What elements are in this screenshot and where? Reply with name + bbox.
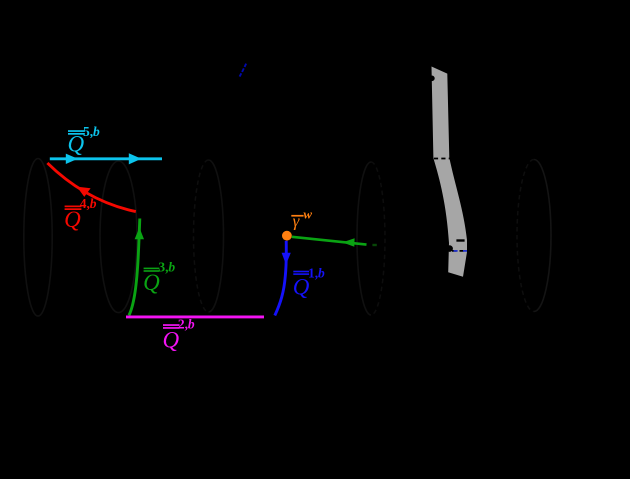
label gamma-w (orange)	[291, 207, 312, 231]
arrowhead 2 on Q5b	[129, 153, 142, 164]
short black dash on band	[456, 239, 464, 241]
arrowhead on Q3b (pointing up)	[135, 228, 144, 240]
curve Q3b (green arc along E2 right edge)	[129, 219, 140, 316]
notch dot on band top-left edge	[429, 76, 435, 82]
curve Q1b (blue arc from marked point down to Q2b)	[275, 241, 287, 316]
cylinder circle E4 (left solid, right dashed)	[357, 162, 371, 315]
dashed w-line crossing band (blue dashes)	[454, 250, 458, 252]
svg-text:b: b	[168, 260, 175, 275]
svg-text:5,: 5,	[83, 124, 93, 139]
blue dashed segment (upper left of band)	[240, 64, 247, 77]
dashed silhouette line across band (y=158)	[427, 158, 457, 160]
label Q3b (green)	[143, 260, 175, 295]
svg-text:2,: 2,	[178, 316, 188, 331]
arrowhead on Q1b (pointing down)	[282, 253, 291, 265]
curve Q5b (cyan line along cylinder top)	[50, 157, 162, 160]
label Q5b (cyan)	[68, 124, 101, 157]
svg-text:w: w	[303, 207, 312, 222]
cylinder circle E2 (solid)	[100, 161, 137, 313]
arrowhead on gamma-w (pointing left)	[342, 238, 354, 247]
dashed w-line crossing band (black dashes)	[452, 250, 471, 252]
curve Q2b (magenta line along cylinder bottom)	[126, 315, 264, 318]
svg-text:Q: Q	[64, 207, 81, 232]
arrowhead on Q4b (pointing up-left along curve)	[77, 187, 91, 197]
curve Q4b (red arc)	[47, 163, 135, 212]
label Q1b (blue)	[293, 265, 325, 299]
svg-text:4,: 4,	[80, 196, 90, 211]
gray band (branch-cut sheet)	[432, 67, 468, 277]
svg-text:b: b	[90, 196, 97, 211]
svg-text:b: b	[318, 265, 325, 280]
cylinder circle E1 (leftmost, solid)	[24, 159, 52, 317]
arrowhead 1 on Q5b	[66, 154, 78, 164]
label Q4b (red)	[64, 196, 97, 232]
svg-text:Q: Q	[68, 132, 85, 157]
cylinder circle E3 (left half dashed, right solid)	[194, 160, 209, 312]
svg-text:1,: 1,	[308, 265, 318, 280]
svg-text:b: b	[188, 316, 195, 331]
svg-text:b: b	[93, 124, 100, 139]
curve gamma-w (green line from dot to cylinder edge)	[292, 237, 367, 245]
black puncture dot on band left edge	[446, 245, 453, 252]
cylinder circle E5 (left half dashed, right solid)	[517, 160, 534, 312]
faint hidden continuation of gamma-w	[372, 244, 376, 246]
label Q2b (magenta)	[163, 316, 195, 352]
svg-text:3,: 3,	[158, 260, 168, 275]
marked point (orange dot)	[282, 231, 292, 241]
